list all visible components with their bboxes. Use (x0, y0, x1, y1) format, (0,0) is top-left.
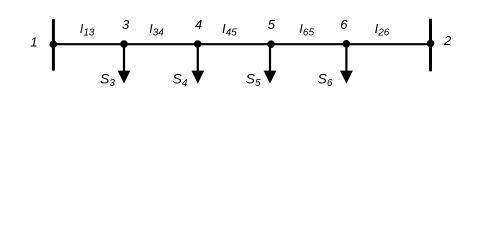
svg-text:I45: I45 (222, 21, 237, 39)
svg-text:I34: I34 (149, 21, 164, 39)
svg-text:6: 6 (340, 17, 348, 32)
svg-text:S3: S3 (100, 71, 115, 89)
svg-text:I13: I13 (80, 21, 95, 39)
svg-text:I65: I65 (299, 21, 314, 39)
svg-text:S4: S4 (173, 71, 188, 89)
svg-text:1: 1 (30, 35, 37, 50)
svg-text:S5: S5 (246, 71, 261, 89)
svg-text:4: 4 (195, 17, 202, 32)
svg-text:S6: S6 (318, 71, 333, 89)
svg-text:2: 2 (443, 33, 452, 48)
svg-text:I26: I26 (375, 21, 390, 39)
svg-text:5: 5 (268, 17, 276, 32)
svg-text:3: 3 (122, 17, 130, 32)
